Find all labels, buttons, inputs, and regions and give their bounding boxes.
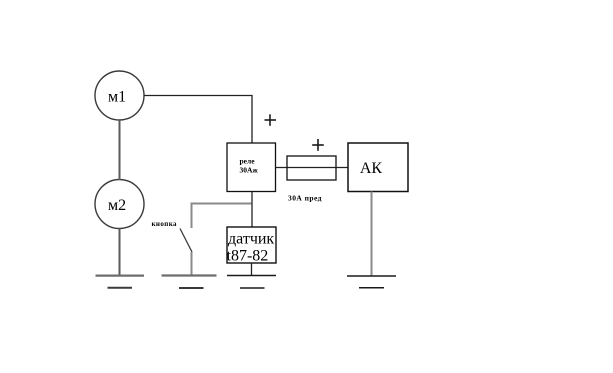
svg-text:кнопка: кнопка <box>152 220 178 228</box>
svg-text:реле: реле <box>240 157 256 166</box>
svg-text:датчик: датчик <box>228 231 274 248</box>
svg-text:30Аж: 30Аж <box>240 166 259 175</box>
svg-text:30А пред: 30А пред <box>288 194 322 203</box>
svg-text:м1: м1 <box>108 89 126 106</box>
svg-text:t87-82: t87-82 <box>227 248 269 265</box>
svg-text:м2: м2 <box>108 197 126 214</box>
svg-text:АК: АК <box>360 160 383 177</box>
